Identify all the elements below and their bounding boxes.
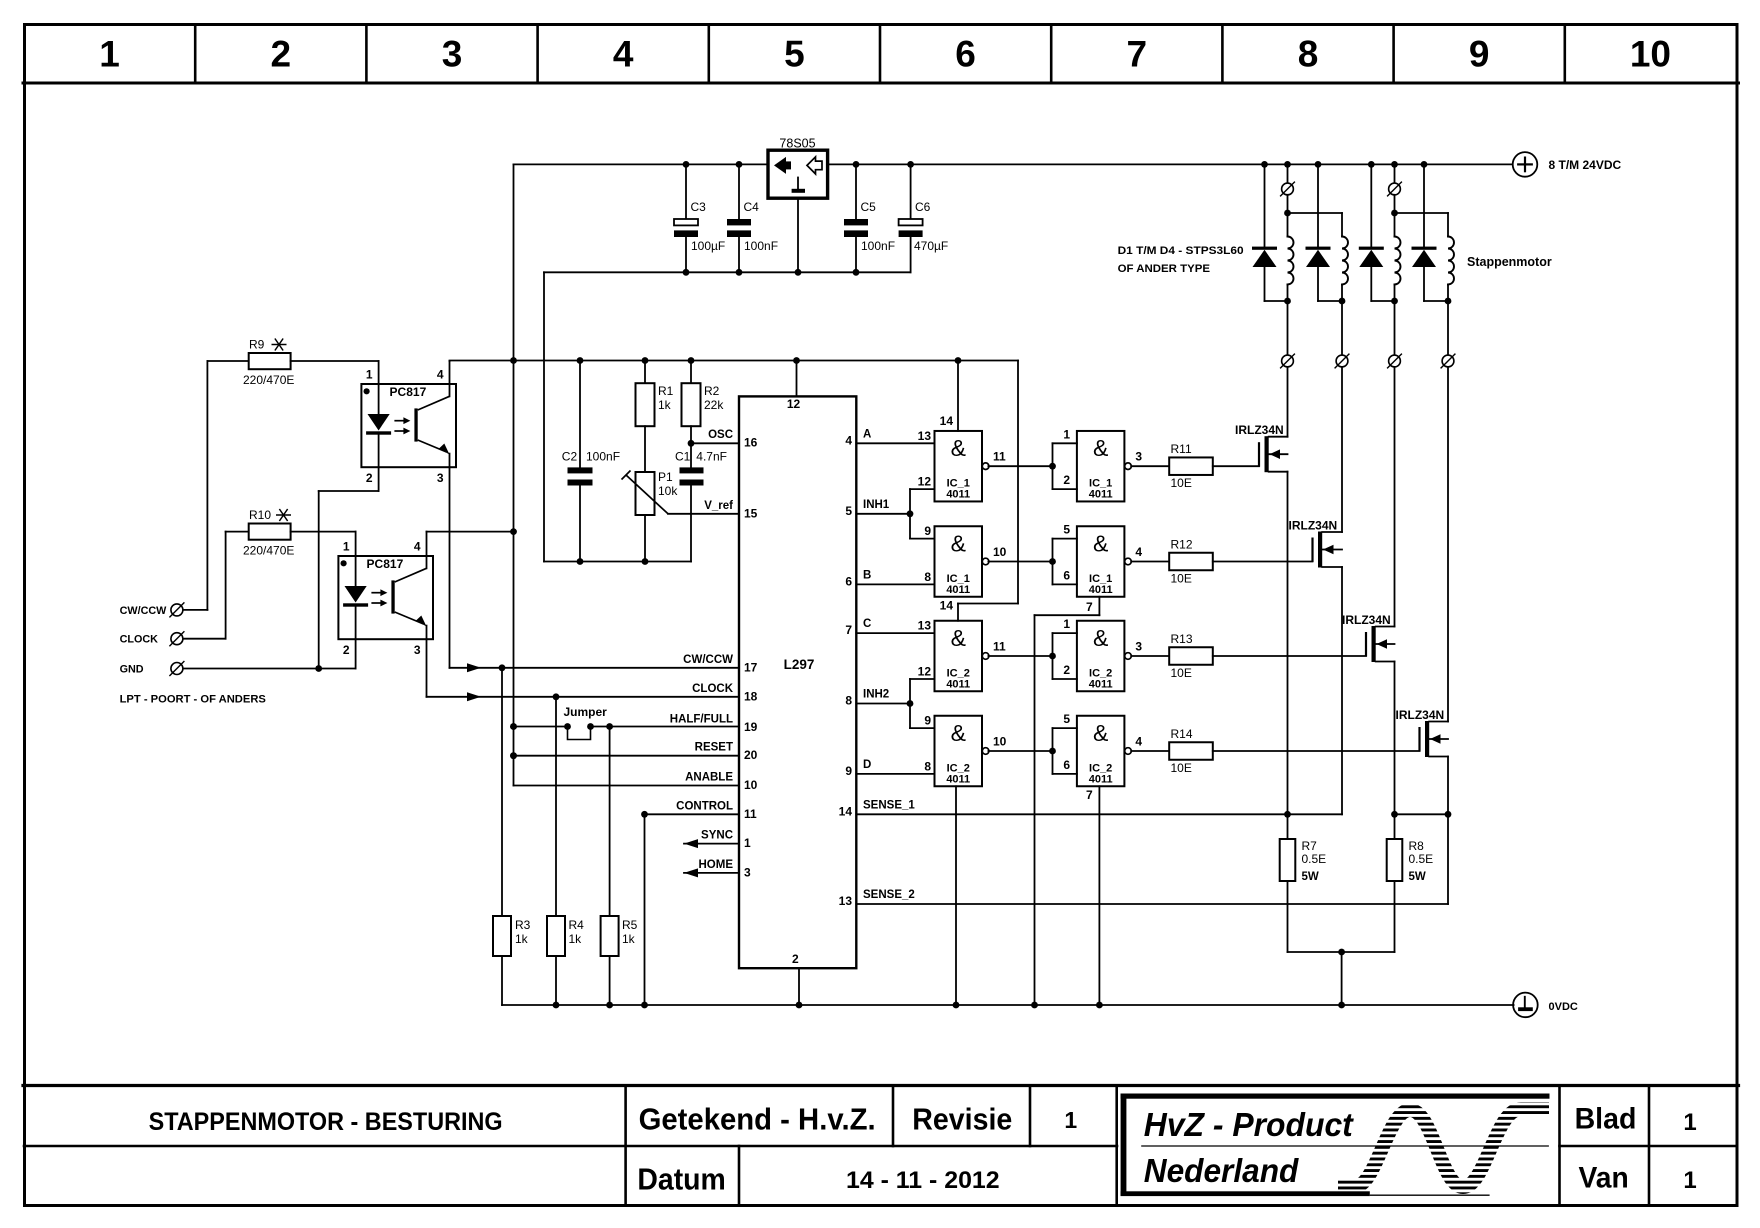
svg-text:R12: R12	[1171, 538, 1193, 552]
svg-text:3: 3	[1135, 640, 1142, 654]
svg-text:4: 4	[1135, 735, 1142, 749]
svg-text:0.5E: 0.5E	[1409, 852, 1434, 866]
svg-text:14: 14	[940, 599, 954, 613]
svg-text:20: 20	[744, 748, 758, 762]
svg-text:1: 1	[744, 836, 751, 850]
svg-text:4011: 4011	[946, 489, 970, 501]
svg-text:4: 4	[613, 34, 634, 75]
svg-text:3: 3	[744, 865, 751, 879]
svg-text:3: 3	[442, 34, 463, 75]
svg-text:9: 9	[845, 764, 852, 778]
svg-text:1: 1	[1683, 1167, 1696, 1194]
svg-text:Van: Van	[1579, 1162, 1629, 1195]
svg-text:R13: R13	[1171, 632, 1193, 646]
svg-text:11: 11	[744, 807, 757, 821]
svg-text:12: 12	[787, 397, 801, 411]
svg-text:78S05: 78S05	[779, 136, 815, 150]
svg-text:9: 9	[924, 524, 931, 538]
svg-text:R1: R1	[658, 384, 674, 398]
svg-text:CLOCK: CLOCK	[692, 683, 734, 695]
svg-text:C3: C3	[691, 200, 707, 214]
svg-text:13: 13	[918, 619, 932, 633]
svg-text:17: 17	[744, 660, 758, 674]
svg-text:9: 9	[924, 714, 931, 728]
svg-text:100µF: 100µF	[691, 239, 725, 253]
svg-text:LPT - POORT - OF ANDERS: LPT - POORT - OF ANDERS	[120, 694, 267, 706]
svg-text:3: 3	[1135, 450, 1142, 464]
svg-text:4011: 4011	[1089, 774, 1113, 786]
svg-text:6: 6	[845, 574, 852, 588]
svg-text:5: 5	[1063, 712, 1070, 726]
svg-text:4011: 4011	[1089, 584, 1113, 596]
svg-text:8 T/M 24VDC: 8 T/M 24VDC	[1549, 158, 1622, 172]
svg-text:12: 12	[918, 475, 932, 489]
svg-text:4.7nF: 4.7nF	[696, 450, 727, 464]
svg-text:Nederland: Nederland	[1144, 1152, 1299, 1189]
svg-text:STAPPENMOTOR - BESTURING: STAPPENMOTOR - BESTURING	[149, 1108, 503, 1136]
svg-text:19: 19	[744, 720, 758, 734]
svg-text:1k: 1k	[515, 932, 529, 946]
svg-text:1: 1	[99, 34, 120, 75]
svg-text:Datum: Datum	[637, 1162, 725, 1197]
svg-text:1: 1	[1063, 617, 1070, 631]
svg-text:2: 2	[1063, 663, 1070, 677]
svg-text:4: 4	[1135, 545, 1142, 559]
svg-text:470µF: 470µF	[914, 239, 948, 253]
svg-text:10: 10	[993, 545, 1007, 559]
svg-text:2: 2	[343, 643, 350, 657]
svg-text:1: 1	[1063, 427, 1070, 441]
svg-text:10E: 10E	[1171, 476, 1192, 490]
svg-text:4011: 4011	[1089, 489, 1113, 501]
svg-text:Blad: Blad	[1575, 1102, 1637, 1135]
svg-text:13: 13	[918, 429, 932, 443]
svg-text:220/470E: 220/470E	[243, 544, 294, 558]
svg-text:&: &	[1093, 531, 1108, 557]
svg-text:14: 14	[839, 804, 853, 818]
svg-text:Revisie: Revisie	[912, 1103, 1012, 1137]
svg-text:IRLZ34N: IRLZ34N	[1342, 613, 1391, 627]
svg-text:R7: R7	[1302, 839, 1318, 853]
svg-text:D1 T/M D4 - STPS3L60: D1 T/M D4 - STPS3L60	[1118, 245, 1244, 257]
svg-text:1k: 1k	[622, 932, 636, 946]
svg-text:HvZ - Product: HvZ - Product	[1144, 1106, 1355, 1143]
svg-text:5W: 5W	[1302, 871, 1319, 883]
svg-text:22k: 22k	[704, 398, 724, 412]
svg-text:11: 11	[993, 640, 1006, 654]
svg-text:10E: 10E	[1171, 666, 1192, 680]
svg-text:ANABLE: ANABLE	[685, 772, 733, 784]
svg-text:100nF: 100nF	[861, 239, 895, 253]
svg-text:C6: C6	[915, 200, 931, 214]
svg-text:4: 4	[437, 368, 444, 382]
svg-text:7: 7	[1086, 600, 1093, 614]
svg-text:B: B	[863, 569, 871, 581]
svg-text:D: D	[863, 759, 871, 771]
svg-text:4: 4	[845, 433, 852, 447]
svg-text:1: 1	[1064, 1107, 1077, 1133]
svg-text:CW/CCW: CW/CCW	[120, 605, 168, 617]
svg-text:5W: 5W	[1409, 871, 1426, 883]
svg-text:8: 8	[1298, 34, 1319, 75]
svg-text:L297: L297	[784, 657, 815, 672]
svg-text:SYNC: SYNC	[701, 830, 733, 842]
svg-text:10: 10	[993, 735, 1007, 749]
svg-text:10E: 10E	[1171, 572, 1192, 586]
svg-text:&: &	[951, 625, 966, 651]
svg-text:4: 4	[414, 540, 421, 554]
svg-text:1: 1	[343, 540, 350, 554]
svg-text:5: 5	[784, 34, 805, 75]
svg-text:Getekend - H.v.Z.: Getekend - H.v.Z.	[639, 1103, 876, 1137]
svg-text:7: 7	[1127, 34, 1148, 75]
svg-text:R4: R4	[569, 918, 585, 932]
svg-text:16: 16	[744, 436, 758, 450]
svg-text:&: &	[951, 531, 966, 557]
svg-text:C1: C1	[675, 450, 691, 464]
svg-text:R5: R5	[622, 918, 638, 932]
svg-text:2: 2	[271, 34, 292, 75]
svg-text:3: 3	[414, 643, 421, 657]
svg-text:14: 14	[940, 414, 954, 428]
svg-text:8: 8	[924, 570, 931, 584]
svg-text:8: 8	[924, 759, 931, 773]
svg-text:4011: 4011	[1089, 679, 1113, 691]
svg-text:CONTROL: CONTROL	[676, 800, 733, 812]
svg-text:12: 12	[918, 665, 932, 679]
svg-text:CLOCK: CLOCK	[120, 634, 159, 646]
svg-text:&: &	[951, 435, 966, 461]
svg-text:10: 10	[1630, 34, 1671, 75]
svg-text:Jumper: Jumper	[564, 705, 608, 719]
svg-text:R11: R11	[1171, 442, 1192, 456]
svg-text:2: 2	[1063, 473, 1070, 487]
svg-text:IRLZ34N: IRLZ34N	[1396, 708, 1445, 722]
svg-text:1: 1	[1683, 1109, 1696, 1136]
svg-text:&: &	[1093, 720, 1108, 746]
svg-text:R9: R9	[249, 338, 265, 352]
svg-text:INH2: INH2	[863, 689, 889, 701]
svg-text:V_ref: V_ref	[704, 500, 733, 512]
svg-text:IRLZ34N: IRLZ34N	[1289, 519, 1338, 533]
svg-text:4011: 4011	[946, 679, 970, 691]
svg-text:7: 7	[845, 623, 852, 637]
svg-text:INH1: INH1	[863, 499, 890, 511]
svg-text:C4: C4	[744, 200, 760, 214]
svg-text:PC817: PC817	[390, 385, 427, 399]
svg-text:R3: R3	[515, 918, 531, 932]
svg-text:A: A	[863, 428, 871, 440]
svg-text:8: 8	[845, 694, 852, 708]
svg-text:1k: 1k	[658, 398, 672, 412]
svg-text:100nF: 100nF	[744, 239, 778, 253]
svg-text:&: &	[1093, 625, 1108, 651]
svg-text:10k: 10k	[658, 484, 678, 498]
svg-text:RESET: RESET	[695, 742, 733, 754]
svg-text:9: 9	[1469, 34, 1490, 75]
svg-text:CW/CCW: CW/CCW	[683, 654, 733, 666]
svg-text:&: &	[1093, 435, 1108, 461]
svg-text:6: 6	[955, 34, 976, 75]
svg-text:10: 10	[744, 778, 758, 792]
svg-text:IRLZ34N: IRLZ34N	[1235, 423, 1284, 437]
svg-text:220/470E: 220/470E	[243, 373, 294, 387]
svg-text:11: 11	[993, 450, 1006, 464]
svg-text:C5: C5	[861, 200, 877, 214]
svg-text:7: 7	[1086, 788, 1093, 802]
svg-text:R2: R2	[704, 384, 720, 398]
svg-text:0VDC: 0VDC	[1549, 1001, 1578, 1013]
svg-text:C: C	[863, 618, 871, 630]
svg-text:SENSE_2: SENSE_2	[863, 889, 915, 901]
svg-text:6: 6	[1063, 568, 1070, 582]
svg-text:2: 2	[366, 471, 373, 485]
svg-text:HALF/FULL: HALF/FULL	[670, 714, 733, 726]
svg-text:OF ANDER TYPE: OF ANDER TYPE	[1118, 263, 1210, 275]
svg-text:PC817: PC817	[367, 557, 404, 571]
svg-text:1k: 1k	[569, 932, 583, 946]
svg-text:OSC: OSC	[708, 429, 733, 441]
svg-text:4011: 4011	[946, 584, 970, 596]
svg-text:18: 18	[744, 689, 758, 703]
svg-text:C2: C2	[562, 450, 578, 464]
svg-text:100nF: 100nF	[586, 450, 620, 464]
svg-text:P1: P1	[658, 470, 673, 484]
svg-text:R8: R8	[1409, 839, 1425, 853]
svg-text:4011: 4011	[946, 774, 970, 786]
svg-text:0.5E: 0.5E	[1302, 852, 1327, 866]
svg-text:SENSE_1: SENSE_1	[863, 799, 915, 811]
svg-text:5: 5	[1063, 523, 1070, 537]
svg-text:2: 2	[792, 952, 799, 966]
svg-text:GND: GND	[120, 664, 144, 676]
svg-text:Stappenmotor: Stappenmotor	[1467, 255, 1552, 269]
svg-text:13: 13	[839, 894, 853, 908]
svg-text:R14: R14	[1171, 727, 1193, 741]
svg-text:3: 3	[437, 471, 444, 485]
svg-text:1: 1	[366, 368, 373, 382]
svg-text:10E: 10E	[1171, 761, 1192, 775]
svg-text:15: 15	[744, 506, 758, 520]
svg-text:HOME: HOME	[699, 859, 734, 871]
svg-text:&: &	[951, 720, 966, 746]
svg-text:R10: R10	[249, 508, 271, 522]
svg-text:5: 5	[845, 504, 852, 518]
svg-text:14 - 11 - 2012: 14 - 11 - 2012	[846, 1167, 1000, 1194]
svg-text:6: 6	[1063, 758, 1070, 772]
